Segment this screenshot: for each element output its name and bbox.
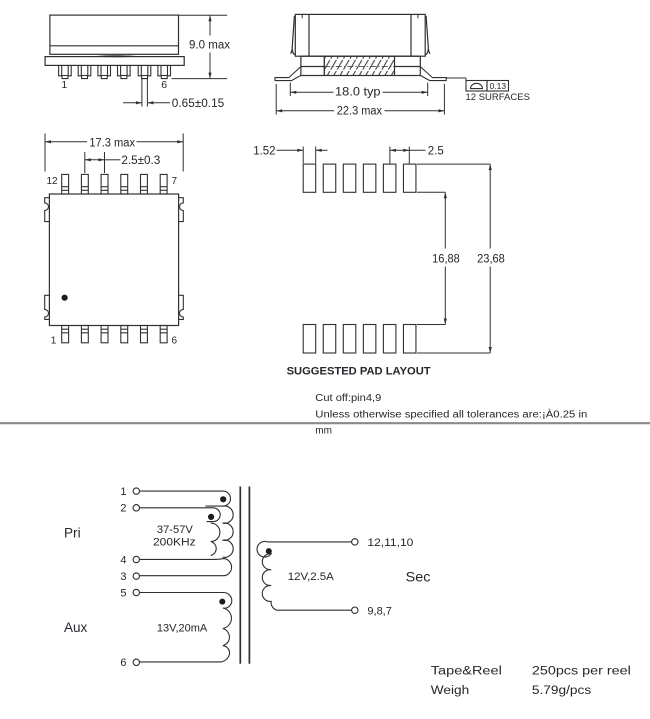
pin wide part (62, 65, 68, 75)
terminal pin 6 (133, 659, 139, 665)
svg-text:Pri: Pri (64, 526, 81, 541)
svg-text:6: 6 (172, 336, 178, 347)
clip tabs with notches (45, 198, 184, 320)
svg-text:3: 3 (120, 571, 126, 583)
svg-text:6: 6 (120, 657, 126, 669)
svg-text:Unless otherwise specified all: Unless otherwise specified all tolerance… (315, 407, 587, 420)
svg-text:200KHz: 200KHz (153, 536, 196, 548)
secondary winding wire + turns (257, 541, 352, 610)
primary inner return loops (211, 523, 220, 555)
terminal pin 3 (133, 573, 139, 579)
svg-text:2: 2 (120, 503, 126, 515)
svg-text:12: 12 (47, 176, 59, 187)
core hatched section (324, 56, 394, 75)
terminal pin 4 (133, 556, 139, 562)
dimension 9.0 max (172, 15, 228, 78)
svg-text:0.65±0.15: 0.65±0.15 (172, 98, 224, 110)
svg-text:17.3 max: 17.3 max (89, 137, 135, 149)
polarity dot winding 1-2 (220, 496, 226, 502)
svg-text:2.5±0.3: 2.5±0.3 (121, 155, 160, 167)
dimension 0.65±0.15 (123, 79, 170, 107)
svg-text:mm: mm (315, 425, 332, 436)
leader to flatness callout (446, 77, 466, 79)
terminal pin 5 (133, 589, 139, 595)
header base (45, 57, 184, 66)
right gull-wing lead (420, 67, 446, 81)
svg-text:6: 6 (161, 79, 167, 91)
svg-text:7: 7 (172, 176, 178, 187)
right clip column line (410, 14, 412, 56)
svg-text:Sec: Sec (406, 570, 431, 585)
svg-text:37-57V: 37-57V (157, 524, 194, 536)
hatch centerline (324, 66, 394, 68)
svg-text:23,68: 23,68 (477, 253, 505, 265)
dimension 2.5 (pad pitch) (390, 147, 426, 164)
svg-text:SUGGESTED PAD LAYOUT: SUGGESTED PAD LAYOUT (287, 365, 431, 377)
left clip column line (308, 14, 310, 56)
svg-text:1: 1 (51, 336, 57, 347)
svg-text:13V,20mA: 13V,20mA (157, 623, 208, 635)
svg-text:22.3 max: 22.3 max (337, 106, 382, 118)
svg-text:1: 1 (120, 486, 126, 498)
polarity dot winding 2-4 (208, 514, 214, 520)
section divider rule (0, 422, 650, 424)
svg-text:Weigh: Weigh (431, 685, 469, 697)
polarity dot aux winding (219, 599, 225, 605)
svg-text:250pcs per reel: 250pcs per reel (532, 666, 631, 678)
svg-text:0.13: 0.13 (490, 81, 507, 91)
svg-text:16,88: 16,88 (432, 253, 460, 265)
terminal pin 1 (133, 488, 139, 494)
svg-text:1: 1 (61, 79, 67, 91)
body outline (end view) (295, 14, 425, 56)
svg-text:12 SURFACES: 12 SURFACES (466, 92, 530, 103)
dimension 22.3 max (276, 84, 444, 115)
secondary terminal 9,8,7 (352, 607, 358, 613)
top row pins (12..7) (62, 174, 167, 194)
svg-text:1.52: 1.52 (253, 145, 275, 157)
base mid-section outline (301, 56, 420, 75)
left gull-wing lead (275, 67, 301, 81)
dimension 17.3 max (45, 134, 183, 172)
dimension 18.0 typ (290, 83, 427, 97)
svg-text:2.5: 2.5 (428, 145, 444, 157)
dimension 16,88 (417, 192, 445, 324)
core line right (248, 487, 250, 664)
winding pins 2-4 (wire + cap turn) (140, 508, 221, 522)
winding pins 1-2 (wire + turn) (140, 491, 231, 506)
pedestal walls (59, 65, 72, 75)
svg-text:Cut off:pin4,9: Cut off:pin4,9 (315, 393, 381, 404)
core line left (239, 487, 241, 664)
top pad row (303, 164, 416, 192)
solder smudge at body/base seam (93, 55, 139, 57)
svg-text:Tape&Reel: Tape&Reel (431, 666, 502, 678)
svg-text:12,11,10: 12,11,10 (367, 537, 413, 549)
svg-text:12V,2.5A: 12V,2.5A (288, 571, 335, 583)
flatness feature control frame (466, 81, 509, 92)
secondary terminal 12,11,10 (352, 539, 358, 545)
dimension 23,68 (417, 164, 490, 353)
terminal pin 2 (133, 505, 139, 511)
bottom row pins (1..6) (62, 326, 167, 343)
pins 1-6 (side view, pedestals + leads) (59, 65, 171, 78)
bottom pad row (303, 325, 416, 354)
svg-text:9.0 max: 9.0 max (189, 40, 230, 52)
svg-text:5.79g/pcs: 5.79g/pcs (532, 685, 592, 697)
polarity dot secondary (266, 548, 272, 554)
package body (top view) (49, 194, 178, 326)
svg-text:4: 4 (120, 554, 126, 566)
pin 1 index dot (62, 295, 68, 301)
body seam line (50, 45, 179, 47)
transformer body outline (side view) (50, 15, 179, 54)
dimension 2.5±0.3 (85, 152, 121, 173)
aux winding pins 5-6 (wire 5 + turns + wire 6) (140, 593, 232, 662)
svg-text:18.0 typ: 18.0 typ (335, 87, 381, 99)
pin tip (62, 76, 68, 79)
svg-text:5: 5 (120, 587, 126, 599)
svg-text:9,8,7: 9,8,7 (367, 606, 391, 618)
clip spring claws and ticks (291, 14, 430, 55)
winding pins 4-3 (wire 4 + final turn + wire 3) (140, 559, 232, 576)
primary coil turns (right scallops) and wire to pin 3 (223, 506, 234, 557)
svg-text:Aux: Aux (64, 620, 88, 635)
